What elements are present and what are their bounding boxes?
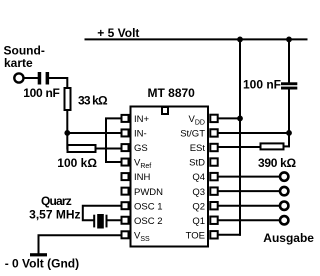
svg-text:PWDN: PWDN — [134, 187, 163, 198]
svg-text:karte: karte — [4, 56, 33, 70]
svg-text:390 kΩ: 390 kΩ — [258, 156, 297, 170]
svg-text:Q3: Q3 — [192, 187, 205, 198]
svg-text:ESt: ESt — [190, 143, 206, 154]
svg-text:33 kΩ: 33 kΩ — [78, 94, 108, 108]
svg-text:INH: INH — [134, 172, 151, 183]
svg-text:100 nF: 100 nF — [23, 86, 59, 100]
svg-text:MT 8870: MT 8870 — [148, 86, 196, 100]
svg-text:IN+: IN+ — [134, 114, 150, 125]
svg-text:Q2: Q2 — [192, 201, 205, 212]
svg-text:IN-: IN- — [134, 129, 147, 140]
svg-text:3,57 MHz: 3,57 MHz — [29, 208, 80, 222]
svg-text:OSC 2: OSC 2 — [134, 216, 163, 227]
svg-text:Quarz: Quarz — [41, 194, 72, 208]
svg-text:Q4: Q4 — [192, 172, 205, 183]
svg-text:- 0 Volt (Gnd): - 0 Volt (Gnd) — [5, 256, 79, 270]
svg-text:GS: GS — [134, 143, 148, 154]
svg-text:StD: StD — [189, 158, 205, 169]
svg-text:+ 5 Volt: + 5 Volt — [97, 26, 139, 40]
svg-text:St/GT: St/GT — [180, 129, 205, 140]
svg-text:TOE: TOE — [186, 230, 205, 241]
svg-text:Q1: Q1 — [192, 216, 205, 227]
svg-text:100 kΩ: 100 kΩ — [57, 156, 97, 170]
svg-text:100 nF: 100 nF — [243, 77, 281, 91]
svg-text:Ausgabe: Ausgabe — [263, 231, 314, 245]
svg-text:OSC 1: OSC 1 — [134, 201, 163, 212]
